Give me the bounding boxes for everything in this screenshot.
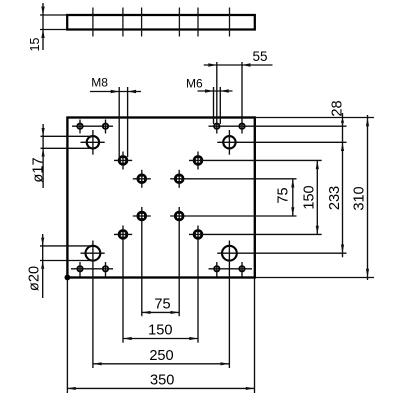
hole M8 top-right bbox=[193, 155, 204, 166]
centreline M8 TL vertical lower stub bbox=[122, 152, 124, 170]
centreline row corner holes bottom-left bbox=[71, 268, 113, 270]
extension line ø17 tangent bottom bbox=[41, 147, 94, 149]
centreline bore ø20 BL vertical, extension for dim 250 left bbox=[92, 241, 94, 369]
svg-text:15: 15 bbox=[28, 38, 42, 52]
centreline M8 BL horizontal bbox=[114, 233, 132, 235]
hole bottom-left B (corner small) bbox=[102, 265, 109, 272]
centreline row corner holes top-right, extension for dim 28 bbox=[209, 125, 347, 127]
extension line ø20 tangent top bbox=[40, 245, 94, 247]
centreline M8 BL vertical, extension for dim 150 bottom left bbox=[122, 226, 124, 343]
centreline M8 TL horizontal bbox=[114, 159, 132, 161]
centreline row corner holes top-left bbox=[72, 125, 113, 127]
centreline row corner holes bottom-right bbox=[209, 268, 253, 270]
dimension 150 right bbox=[302, 160, 319, 234]
centreline bore ø20 BR vertical, extension for dim 250 right bbox=[228, 241, 230, 369]
hole centre bottom-left bbox=[137, 211, 148, 222]
svg-text:M6: M6 bbox=[186, 77, 203, 91]
extension line ø20 tangent bottom bbox=[40, 260, 94, 262]
centreline vertical corner hole BL-B bbox=[105, 262, 107, 277]
dimension M8 bbox=[90, 76, 141, 94]
centreline vertical corner hole BR-A bbox=[216, 262, 218, 277]
svg-text:250: 250 bbox=[149, 348, 173, 364]
hole bottom-right B (corner small) bbox=[238, 265, 245, 272]
centreline centre hole BL vertical, extension dim 75 bottom left bbox=[141, 207, 143, 316]
hole M8 bottom-left bbox=[118, 229, 129, 240]
extension line dim 55 right (through corner hole TR-B) bbox=[241, 62, 243, 134]
centreline centre hole BR horizontal, extension dim 75 right bottom bbox=[170, 215, 296, 217]
centreline centre hole BL horizontal bbox=[133, 215, 151, 217]
hole top-right A (M6 corner small) bbox=[213, 123, 220, 130]
hole centre bottom-right bbox=[174, 211, 185, 222]
dimension ø17 bbox=[30, 124, 46, 188]
hole M8 bottom-right bbox=[193, 229, 204, 240]
dimension 28 arrows bbox=[341, 118, 344, 124]
extension line plate right edge down (dim 350) bbox=[254, 278, 256, 393]
centreline vertical corner hole BL-A bbox=[79, 262, 81, 277]
side view hole centerline ticks bbox=[93, 8, 230, 37]
centreline bore ø20 BR horizontal, extension for dim 233 bottom bbox=[217, 252, 346, 254]
svg-text:ø17: ø17 bbox=[30, 157, 46, 182]
centreline centre hole TL horizontal bbox=[133, 178, 151, 180]
centreline vertical corner hole BR-B bbox=[241, 262, 243, 277]
dimension 75 bottom bbox=[142, 296, 179, 314]
extension line plate left edge down (dim 350) bbox=[66, 280, 68, 393]
svg-text:M8: M8 bbox=[91, 76, 108, 90]
dimension 250 bottom bbox=[93, 348, 229, 366]
hole bottom-left A (corner small) bbox=[76, 265, 83, 272]
dimension 310 bbox=[352, 115, 370, 280]
svg-text:350: 350 bbox=[150, 372, 174, 388]
svg-text:150: 150 bbox=[302, 185, 318, 209]
centreline M8 TR vertical bbox=[197, 152, 199, 170]
svg-text:75: 75 bbox=[276, 187, 292, 203]
dimension ø20 bbox=[27, 234, 45, 298]
extension line plate bottom edge right (dim 310) bbox=[255, 277, 374, 279]
dimension 28 and 233 line bbox=[327, 100, 346, 257]
centreline bore ø17 TL vertical bbox=[92, 130, 94, 155]
svg-text:310: 310 bbox=[352, 186, 368, 210]
centreline M8 TR horizontal, extension for dim 150 right top bbox=[189, 159, 322, 161]
extension line M6 tangent right bbox=[219, 87, 221, 124]
bore ø17 top-left bbox=[87, 136, 99, 148]
centreline M8 BR horizontal, extension for dim 150 right bottom bbox=[189, 233, 322, 235]
hole top-right B (corner small) bbox=[238, 123, 245, 130]
centreline vertical corner hole TL-B bbox=[105, 120, 107, 134]
centreline centre hole TR vertical bbox=[178, 170, 180, 188]
svg-text:233: 233 bbox=[327, 186, 343, 210]
extension line plate top edge right (dim 310) bbox=[255, 117, 374, 119]
dimension 15 (plate thickness) bbox=[28, 3, 67, 51]
hole top-left B (corner small) bbox=[102, 123, 109, 130]
svg-text:28: 28 bbox=[330, 100, 346, 116]
dimension 350 bottom bbox=[67, 372, 255, 390]
hole top-left A (corner small) bbox=[76, 123, 83, 130]
dimension M6 bbox=[186, 77, 233, 93]
centreline centre hole BR vertical, extension dim 75 bottom right bbox=[178, 207, 180, 316]
svg-text:55: 55 bbox=[252, 49, 267, 64]
extension line M6 tangent left bbox=[213, 87, 215, 124]
hole M8 top-left bbox=[118, 155, 129, 166]
main plate outline bbox=[67, 118, 254, 278]
centreline bore ø20 BL horizontal bbox=[81, 252, 105, 254]
svg-text:150: 150 bbox=[148, 323, 172, 339]
centreline bore ø17 TR vertical bbox=[228, 130, 230, 155]
hole centre top-right bbox=[174, 174, 185, 185]
centreline vertical corner hole TL-A bbox=[79, 120, 81, 134]
svg-text:ø20: ø20 bbox=[27, 266, 43, 291]
centreline centre hole TR horizontal, extension dim 75 right top bbox=[170, 178, 296, 180]
extension line dim 55 left (through corner hole TR-A) bbox=[216, 62, 218, 134]
svg-text:75: 75 bbox=[154, 296, 170, 312]
centreline M8 BR vertical, extension for dim 150 bottom right bbox=[197, 226, 199, 343]
hole bottom-right A (corner small) bbox=[213, 265, 220, 272]
dimension 233 arrows bbox=[341, 142, 344, 151]
side view plate outline (top view, 15 thick) bbox=[67, 15, 255, 30]
dimension 55 bbox=[204, 49, 273, 67]
hole centre top-left bbox=[137, 174, 148, 185]
dimension 150 bottom bbox=[123, 323, 198, 341]
bore ø20 bottom-left bbox=[86, 246, 101, 261]
extension line M8 tangent right bbox=[127, 87, 129, 157]
centreline bore ø17 TR horizontal, extension for dim 233 top bbox=[217, 141, 346, 143]
bore ø17 top-right bbox=[223, 136, 235, 148]
extension line M8 tangent left bbox=[118, 87, 120, 157]
centreline bore ø17 TL horizontal bbox=[81, 141, 105, 143]
centrelines and extension lines bbox=[40, 62, 374, 393]
extension line ø17 tangent top bbox=[41, 135, 94, 137]
dimension 75 right bbox=[276, 179, 295, 216]
datum dot bottom-left plate corner bbox=[65, 275, 71, 281]
centreline centre hole TL vertical bbox=[141, 170, 143, 188]
bore ø20 bottom-right bbox=[222, 246, 237, 261]
